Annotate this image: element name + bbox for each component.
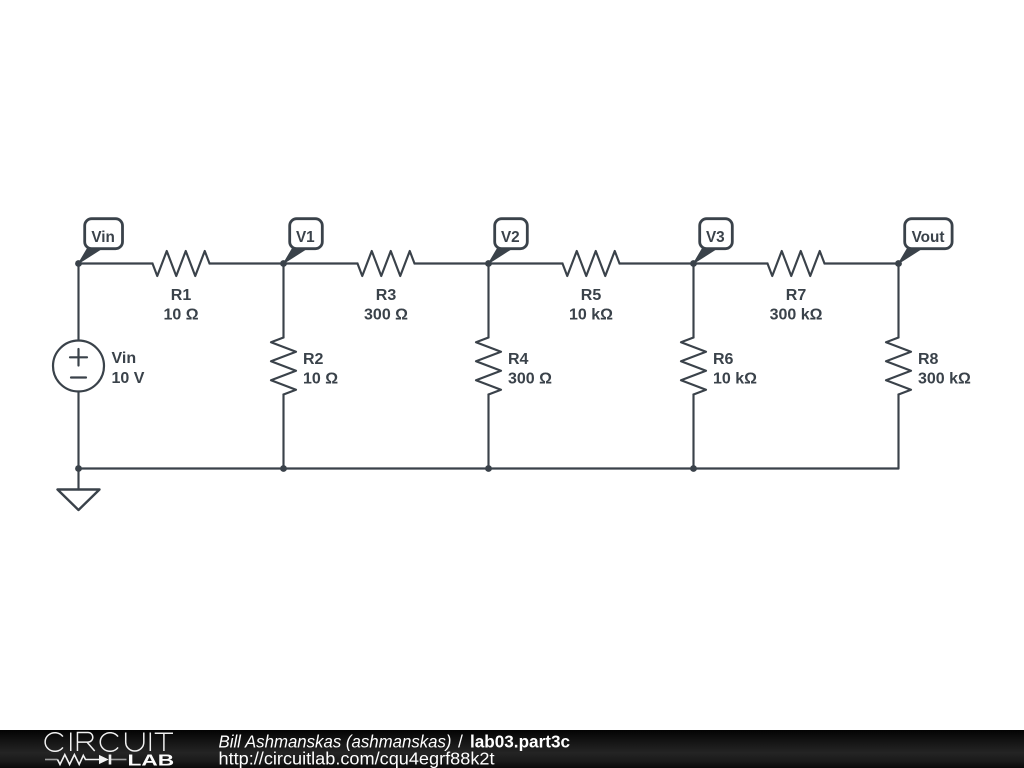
wire R2 to bottom rail (282, 395, 284, 469)
logo resistor-diode glyph (45, 759, 127, 761)
wire ground stem (77, 469, 79, 490)
wire top rail Vin node to R1 (79, 262, 153, 264)
svg-text:10 kΩ: 10 kΩ (569, 307, 613, 324)
svg-text:300 Ω: 300 Ω (508, 371, 552, 388)
wire R1 to V1 node (210, 262, 284, 264)
resistor R1 (153, 251, 210, 276)
wire Vout node down to R8 (897, 264, 899, 338)
resistor R5 (563, 251, 620, 276)
footer bar (0, 730, 1024, 768)
node V2 junction dot (485, 260, 492, 267)
svg-text:R8: R8 (918, 351, 939, 368)
wire Vin node down to source (77, 264, 79, 341)
resistor R7 (768, 251, 825, 276)
node V1 junction dot (280, 260, 287, 267)
resistor R4 (476, 338, 501, 395)
wire R6 to bottom rail (692, 395, 694, 469)
wire bottom rail (79, 467, 899, 469)
wire V3 node down to R6 (692, 264, 694, 338)
wire R5 to V3 node (620, 262, 694, 264)
logo CIRCUIT wordmark (hand-drawn ultralight letters) (45, 733, 173, 752)
wire R3 to V2 node (415, 262, 489, 264)
svg-text:300 kΩ: 300 kΩ (770, 307, 823, 324)
resistor R8 (886, 338, 911, 395)
svg-text:10 Ω: 10 Ω (163, 307, 198, 324)
wire R4 to bottom rail (487, 395, 489, 469)
svg-text:Vout: Vout (912, 229, 945, 246)
wire V1 node down to R2 (282, 264, 284, 338)
svg-text:V1: V1 (296, 229, 315, 246)
node flag V2 (489, 219, 528, 264)
wire V1 node to R3 (284, 262, 358, 264)
wire R7 to Vout node (825, 262, 899, 264)
resistor R3 (358, 251, 415, 276)
voltage source minus sign (71, 376, 86, 378)
ground (58, 490, 100, 511)
voltage source Vin circle (53, 341, 104, 392)
wire V2 node down to R4 (487, 264, 489, 338)
svg-text:R2: R2 (303, 351, 324, 368)
node Vout junction dot (895, 260, 902, 267)
node flag Vout (899, 219, 953, 264)
node flag V3 (694, 219, 733, 264)
voltage source plus sign (70, 349, 87, 366)
svg-text:V2: V2 (501, 229, 520, 246)
resistor R6 (681, 338, 706, 395)
junction dot R4 bottom (485, 465, 492, 472)
svg-text:http://circuitlab.com/cqu4egrf: http://circuitlab.com/cqu4egrf88k2t (219, 748, 495, 768)
svg-text:10 kΩ: 10 kΩ (713, 371, 757, 388)
svg-text:300 kΩ: 300 kΩ (918, 371, 971, 388)
node flag Vin (79, 219, 123, 264)
junction dot R6 bottom (690, 465, 697, 472)
svg-text:R1: R1 (171, 287, 192, 304)
svg-text:300 Ω: 300 Ω (364, 307, 408, 324)
svg-text:R3: R3 (376, 287, 397, 304)
wire source bottom to ground node (77, 392, 79, 469)
svg-text:R5: R5 (581, 287, 602, 304)
svg-text:R4: R4 (508, 351, 529, 368)
node V3 junction dot (690, 260, 697, 267)
svg-text:Vin: Vin (91, 229, 115, 246)
node Vin junction dot (75, 260, 82, 267)
wire V3 node to R7 (694, 262, 768, 264)
wire V2 node to R5 (489, 262, 563, 264)
ground junction dot (75, 465, 82, 472)
svg-text:Vin: Vin (112, 350, 137, 367)
svg-text:R7: R7 (786, 287, 807, 304)
junction dot R2 bottom (280, 465, 287, 472)
node flag V1 (284, 219, 323, 264)
svg-text:V3: V3 (706, 229, 725, 246)
wire R8 to bottom rail corner (897, 395, 899, 469)
svg-text:LAB: LAB (128, 752, 175, 768)
svg-text:10 Ω: 10 Ω (303, 371, 338, 388)
resistor R2 (271, 338, 296, 395)
svg-text:10 V: 10 V (112, 370, 145, 387)
svg-text:R6: R6 (713, 351, 734, 368)
